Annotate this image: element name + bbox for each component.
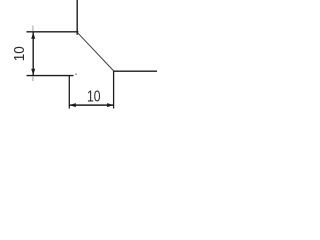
- svg-text:10: 10: [11, 46, 28, 61]
- svg-text:10: 10: [87, 88, 101, 105]
